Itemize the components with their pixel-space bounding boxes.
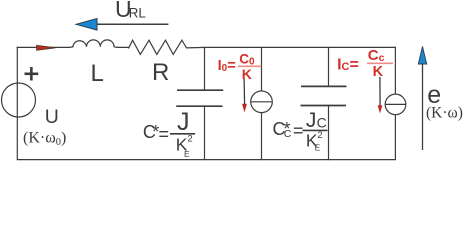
svg-text:E: E [315,143,321,153]
svg-text:C: C [317,115,327,131]
svg-text:RL: RL [129,5,147,20]
svg-text:IC=: IC= [337,56,359,73]
svg-text:=: = [159,124,170,144]
svg-text:J: J [306,109,317,132]
svg-text:(K·ω0): (K·ω0) [23,130,66,148]
svg-text:C0: C0 [239,52,255,68]
svg-text:J: J [177,108,190,136]
svg-text:=: = [293,120,304,140]
svg-text:R: R [152,59,169,86]
svg-text:U: U [45,106,59,128]
svg-text:K: K [242,66,252,82]
svg-text:I0=: I0= [218,58,236,74]
svg-text:2: 2 [317,130,322,141]
svg-text:2: 2 [187,133,192,144]
svg-text:(K·ω): (K·ω) [426,105,463,122]
svg-text:K: K [373,64,384,80]
svg-text:Cc: Cc [368,47,385,64]
svg-text:C: C [284,128,292,140]
svg-text:E: E [184,149,190,159]
svg-text:L: L [91,60,104,87]
